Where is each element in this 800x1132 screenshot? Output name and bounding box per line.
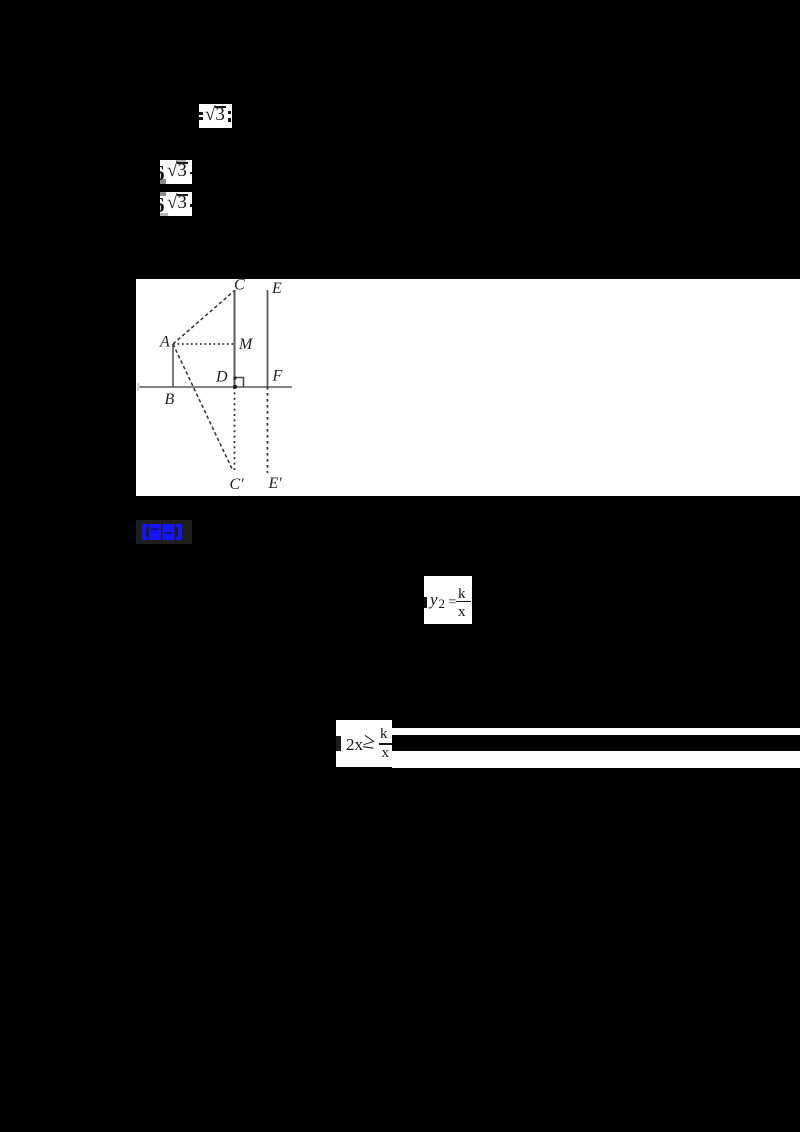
svg-text:C′: C′ — [230, 476, 245, 493]
white strip lower (text row highlight) — [392, 751, 800, 768]
svg-text:C: C — [234, 279, 245, 294]
gray corner patch — [160, 192, 166, 196]
left cut glyph — [424, 597, 427, 608]
svg-text:E′: E′ — [268, 475, 283, 492]
svg-text:A: A — [159, 334, 170, 351]
white strip upper (text row highlight) — [392, 728, 800, 736]
dotted segment A-M — [173, 343, 234, 345]
>= sign — [362, 729, 377, 752]
dotted segment D-C' — [234, 387, 236, 473]
axis line B-D-F horizontal — [137, 386, 292, 388]
svg-text:M: M — [238, 336, 254, 353]
bracket right — [176, 524, 182, 540]
dashed segment A-C' — [173, 344, 233, 471]
equals — [449, 596, 457, 610]
svg-text:E: E — [271, 280, 282, 297]
char ping — [163, 524, 175, 540]
cut digit 6 — [154, 161, 165, 186]
equation image: 2x >= k/x — [336, 720, 392, 767]
subscript 2 — [439, 597, 446, 610]
equation image: y2 = k/x — [424, 576, 472, 624]
y — [430, 591, 438, 608]
radical sqrt 3 — [167, 192, 187, 214]
bracket left — [142, 524, 148, 540]
geometry figure image (white panel) — [136, 279, 800, 496]
radical sqrt 3 — [167, 160, 187, 182]
radical sqrt 3 — [205, 104, 225, 126]
equation image: 6 sqrt(3) (middle 1) — [160, 160, 192, 184]
char dian — [149, 524, 161, 540]
segment C-D vertical — [234, 290, 236, 387]
equation image: 6 sqrt(3) (middle 2) — [160, 192, 192, 216]
segment E-F vertical — [267, 290, 269, 387]
fraction k over x — [380, 727, 388, 742]
right cut tick — [190, 204, 192, 207]
junction dot at D — [233, 385, 237, 389]
svg-text:B: B — [165, 391, 175, 408]
axis left tick — [137, 383, 140, 391]
dashed segment F-E' — [267, 387, 269, 473]
fraction k over x — [458, 587, 466, 602]
equation image: sqrt(3) (top) — [199, 104, 232, 128]
junction dot at right-angle corner — [233, 377, 236, 380]
right angle mark at D — [235, 378, 244, 388]
right cut glyph — [228, 111, 231, 114]
highlighted label 【点评】 (blue on dark) — [136, 520, 192, 544]
left cut glyph (=) — [197, 112, 203, 115]
2x — [346, 736, 363, 753]
svg-text:F: F — [272, 368, 283, 385]
left cut glyph block — [336, 736, 341, 751]
cut digit 6 — [154, 193, 165, 218]
svg-text:D: D — [215, 369, 228, 386]
dashed segment A-C — [173, 291, 234, 344]
gray corner patch — [160, 179, 166, 184]
right cut tick — [190, 172, 192, 174]
segment A-B vertical — [172, 344, 174, 387]
